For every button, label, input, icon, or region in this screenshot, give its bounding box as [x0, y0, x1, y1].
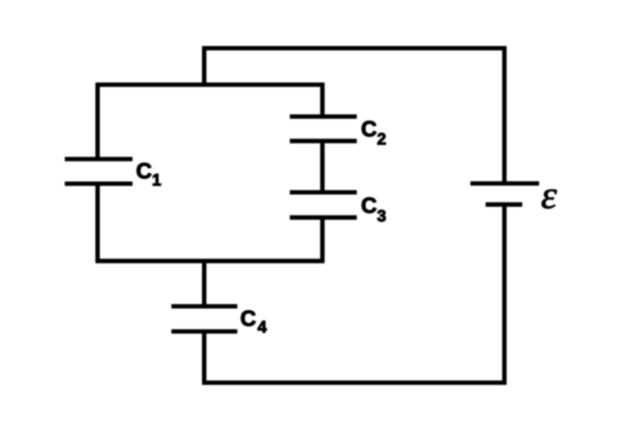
svg-text:ε: ε — [541, 174, 557, 217]
svg-text:C: C — [240, 306, 256, 331]
svg-text:2: 2 — [377, 130, 386, 148]
svg-text:C: C — [136, 159, 152, 184]
svg-text:C: C — [361, 116, 377, 141]
svg-text:C: C — [361, 193, 377, 218]
svg-text:1: 1 — [152, 172, 161, 190]
svg-text:3: 3 — [377, 207, 386, 225]
svg-text:4: 4 — [258, 319, 268, 337]
